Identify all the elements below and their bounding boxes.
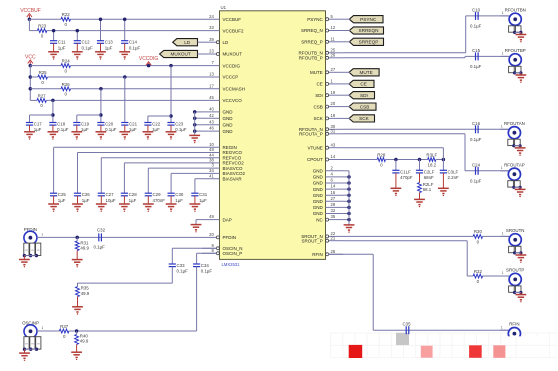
- svg-text:m: m: [37, 343, 39, 346]
- svg-text:27: 27: [331, 67, 336, 72]
- svg-text:12: 12: [331, 25, 336, 30]
- svg-text:SDI: SDI: [315, 93, 323, 98]
- svg-text:1: 1: [501, 166, 503, 170]
- svg-text:24: 24: [209, 14, 214, 19]
- svg-text:49.9: 49.9: [81, 291, 90, 296]
- svg-text:SDI: SDI: [360, 93, 368, 98]
- svg-text:PFDIN: PFDIN: [223, 235, 237, 240]
- svg-text:C28: C28: [129, 192, 138, 197]
- svg-text:C23: C23: [175, 122, 184, 127]
- svg-text:0.1µF: 0.1µF: [175, 127, 187, 132]
- svg-text:C14: C14: [129, 40, 138, 45]
- svg-text:R22: R22: [62, 12, 71, 17]
- svg-text:0.1µF: 0.1µF: [470, 178, 482, 183]
- svg-text:1µF: 1µF: [199, 198, 207, 203]
- svg-text:R24: R24: [62, 59, 71, 64]
- svg-text:C18: C18: [57, 122, 66, 127]
- svg-text:RFOUTB_P: RFOUTB_P: [299, 56, 323, 61]
- svg-text:10µF: 10µF: [106, 198, 116, 203]
- svg-text:29: 29: [331, 202, 336, 207]
- svg-text:VCCCP: VCCCP: [223, 75, 239, 80]
- svg-text:RFIN: RFIN: [509, 322, 519, 327]
- svg-text:SRREQN: SRREQN: [358, 28, 378, 33]
- svg-text:RFOUTAP: RFOUTAP: [504, 162, 525, 167]
- svg-text:C22: C22: [152, 122, 161, 127]
- svg-text:1: 1: [501, 325, 503, 329]
- svg-text:470nF: 470nF: [153, 198, 166, 203]
- svg-text:1µF: 1µF: [129, 198, 137, 203]
- svg-text:49.9: 49.9: [80, 339, 89, 344]
- svg-text:CSB: CSB: [360, 104, 370, 109]
- svg-text:C15: C15: [472, 48, 481, 53]
- svg-text:VTUNE: VTUNE: [308, 145, 323, 150]
- svg-text:19: 19: [331, 90, 336, 95]
- svg-text:SCK: SCK: [359, 116, 370, 121]
- svg-text:GND: GND: [223, 123, 234, 128]
- svg-text:18: 18: [331, 113, 336, 118]
- svg-text:0.1µF: 0.1µF: [201, 269, 213, 274]
- svg-text:PSYNC: PSYNC: [360, 17, 377, 22]
- svg-text:CE: CE: [317, 82, 323, 87]
- svg-text:C32: C32: [97, 228, 106, 233]
- svg-text:GND: GND: [313, 175, 324, 180]
- svg-text:49.9: 49.9: [80, 246, 89, 251]
- svg-text:21: 21: [331, 235, 336, 240]
- svg-text:0.1µF: 0.1µF: [105, 127, 117, 132]
- svg-text:SROUT_P: SROUT_P: [302, 238, 323, 243]
- svg-text:LD: LD: [184, 40, 191, 45]
- svg-text:GND: GND: [223, 110, 234, 115]
- svg-text:49: 49: [209, 214, 214, 219]
- svg-text:0.1µF: 0.1µF: [470, 64, 482, 69]
- svg-text:18.2: 18.2: [428, 162, 437, 167]
- svg-text:SROUTP: SROUTP: [506, 268, 524, 273]
- svg-text:VCCBUF2: VCCBUF2: [223, 28, 245, 33]
- svg-text:46: 46: [209, 126, 214, 131]
- svg-text:0.1µF: 0.1µF: [57, 127, 69, 132]
- svg-text:GND: GND: [313, 187, 324, 192]
- svg-text:C26: C26: [82, 192, 91, 197]
- svg-text:LD: LD: [223, 40, 230, 45]
- svg-text:C10: C10: [472, 8, 481, 13]
- svg-text:0.1µF: 0.1µF: [82, 45, 94, 50]
- svg-text:DAP: DAP: [223, 217, 232, 222]
- svg-text:14: 14: [331, 184, 336, 189]
- svg-text:LMX2531: LMX2531: [222, 262, 241, 267]
- svg-text:GND: GND: [313, 169, 324, 174]
- svg-text:R26: R26: [62, 82, 71, 87]
- svg-text:SRREQ_N: SRREQ_N: [301, 28, 323, 33]
- svg-text:17: 17: [209, 83, 214, 88]
- svg-text:GND: GND: [313, 205, 324, 210]
- svg-text:GND: GND: [313, 211, 324, 216]
- svg-text:1µF: 1µF: [58, 45, 66, 50]
- svg-text:VCCDIG: VCCDIG: [223, 63, 241, 68]
- svg-text:0.1µF: 0.1µF: [177, 269, 189, 274]
- svg-text:C19: C19: [81, 122, 90, 127]
- svg-text:41: 41: [209, 173, 214, 178]
- svg-text:U1: U1: [221, 5, 227, 10]
- svg-text:68nF: 68nF: [424, 175, 434, 180]
- svg-text:GND: GND: [223, 116, 234, 121]
- svg-text:RFOUTAN: RFOUTAN: [504, 121, 525, 126]
- svg-text:R37: R37: [60, 324, 69, 329]
- svg-text:34: 34: [209, 168, 214, 173]
- svg-text:VCCMASH: VCCMASH: [223, 87, 246, 92]
- svg-text:MUTE: MUTE: [310, 70, 323, 75]
- svg-text:C33: C33: [177, 263, 186, 268]
- svg-text:RFOUTBN: RFOUTBN: [505, 7, 526, 12]
- svg-text:68.1: 68.1: [423, 187, 432, 192]
- svg-text:SCK: SCK: [314, 116, 323, 121]
- svg-text:R3LF: R3LF: [426, 152, 437, 157]
- svg-text:C12: C12: [82, 40, 91, 45]
- svg-text:C11: C11: [58, 40, 66, 45]
- svg-text:VCCVCO: VCCVCO: [223, 98, 243, 103]
- svg-text:SRREQ_P: SRREQ_P: [301, 40, 323, 45]
- svg-text:m: m: [31, 249, 33, 252]
- svg-text:43: 43: [331, 142, 336, 147]
- svg-text:0.1µF: 0.1µF: [94, 245, 106, 250]
- svg-text:32: 32: [331, 208, 336, 213]
- svg-text:C20: C20: [105, 122, 114, 127]
- svg-text:R27: R27: [38, 93, 47, 98]
- svg-text:35: 35: [331, 214, 336, 219]
- svg-text:MUTE: MUTE: [359, 70, 372, 75]
- svg-text:31: 31: [331, 128, 336, 133]
- svg-text:CPOUT: CPOUT: [307, 157, 323, 162]
- svg-text:39: 39: [209, 37, 214, 42]
- svg-text:C16: C16: [472, 121, 481, 126]
- svg-text:MUXOUT: MUXOUT: [170, 52, 190, 57]
- svg-text:42: 42: [209, 113, 214, 118]
- svg-text:C1LF: C1LF: [400, 169, 411, 174]
- svg-text:VCCDIG: VCCDIG: [139, 56, 159, 62]
- svg-text:26: 26: [331, 52, 336, 57]
- svg-text:16: 16: [331, 190, 336, 195]
- svg-text:m: m: [25, 249, 27, 252]
- svg-text:GND: GND: [313, 181, 324, 186]
- svg-text:14: 14: [331, 154, 336, 159]
- svg-text:0.1µF: 0.1µF: [470, 23, 482, 28]
- svg-text:27: 27: [331, 196, 336, 201]
- svg-text:GND: GND: [223, 129, 234, 134]
- svg-text:SROUTN: SROUTN: [506, 228, 525, 233]
- svg-text:VCCBUF: VCCBUF: [20, 8, 41, 14]
- svg-text:PSYNC: PSYNC: [307, 17, 323, 22]
- svg-text:GND: GND: [313, 193, 324, 198]
- svg-text:1µF: 1µF: [105, 45, 113, 50]
- svg-text:NC: NC: [316, 217, 323, 222]
- svg-text:1µF: 1µF: [82, 198, 90, 203]
- svg-text:1: 1: [502, 271, 504, 275]
- svg-text:R23: R23: [38, 24, 47, 29]
- svg-text:1: 1: [42, 326, 44, 330]
- svg-text:1: 1: [41, 233, 43, 237]
- svg-text:33: 33: [209, 25, 214, 30]
- svg-text:SRREQP: SRREQP: [359, 40, 379, 45]
- svg-text:R25: R25: [39, 70, 48, 75]
- svg-text:RFOUTA_P: RFOUTA_P: [299, 132, 323, 137]
- svg-text:m: m: [37, 249, 39, 252]
- svg-text:C34: C34: [201, 263, 210, 268]
- svg-text:BIASVCO: BIASVCO: [223, 166, 244, 171]
- svg-text:20: 20: [331, 101, 336, 106]
- svg-text:40: 40: [209, 107, 214, 112]
- svg-text:23: 23: [209, 49, 214, 54]
- svg-text:0.1µF: 0.1µF: [129, 45, 141, 50]
- svg-text:C3LF: C3LF: [448, 169, 459, 174]
- svg-text:BIASVAR: BIASVAR: [223, 176, 243, 181]
- svg-text:CSB: CSB: [314, 104, 323, 109]
- svg-text:C25: C25: [58, 192, 67, 197]
- svg-text:C27: C27: [106, 192, 115, 197]
- svg-text:45: 45: [209, 95, 214, 100]
- svg-text:C13: C13: [105, 40, 114, 45]
- svg-text:1: 1: [502, 232, 504, 236]
- svg-text:C30: C30: [175, 192, 184, 197]
- svg-text:BIASVCO2: BIASVCO2: [223, 171, 246, 176]
- svg-text:1: 1: [501, 125, 503, 129]
- svg-text:C17: C17: [34, 122, 43, 127]
- svg-text:1µF: 1µF: [175, 198, 183, 203]
- svg-text:2.2nF: 2.2nF: [448, 175, 460, 180]
- svg-text:C31: C31: [199, 192, 208, 197]
- svg-text:C21: C21: [129, 122, 138, 127]
- svg-text:VCC: VCC: [25, 54, 36, 60]
- svg-text:R30: R30: [474, 229, 483, 234]
- svg-text:C35: C35: [403, 322, 412, 327]
- svg-text:CE: CE: [360, 82, 367, 87]
- svg-text:C29: C29: [153, 192, 162, 197]
- svg-text:RFIN: RFIN: [312, 252, 323, 257]
- svg-text:m: m: [25, 343, 27, 346]
- svg-text:OSCIN_P: OSCIN_P: [223, 251, 243, 256]
- svg-text:0.1µF: 0.1µF: [470, 137, 482, 142]
- svg-text:R32: R32: [474, 269, 483, 274]
- svg-text:RFOUTBP: RFOUTBP: [505, 48, 526, 53]
- svg-text:C2LF: C2LF: [424, 169, 435, 174]
- svg-text:GND: GND: [313, 199, 324, 204]
- svg-text:20: 20: [209, 232, 214, 237]
- svg-text:MUXOUT: MUXOUT: [223, 52, 243, 57]
- svg-text:43: 43: [209, 119, 214, 124]
- svg-text:1: 1: [502, 11, 504, 15]
- svg-text:1µF: 1µF: [58, 198, 66, 203]
- svg-text:11: 11: [331, 36, 336, 41]
- svg-text:13: 13: [209, 72, 214, 77]
- svg-text:28: 28: [331, 249, 336, 254]
- svg-text:470pF: 470pF: [400, 175, 413, 180]
- svg-text:1: 1: [502, 52, 504, 56]
- svg-text:R28: R28: [377, 152, 386, 157]
- svg-text:VCCBUF: VCCBUF: [223, 17, 242, 22]
- svg-text:C24: C24: [472, 162, 481, 167]
- svg-text:m: m: [31, 343, 33, 346]
